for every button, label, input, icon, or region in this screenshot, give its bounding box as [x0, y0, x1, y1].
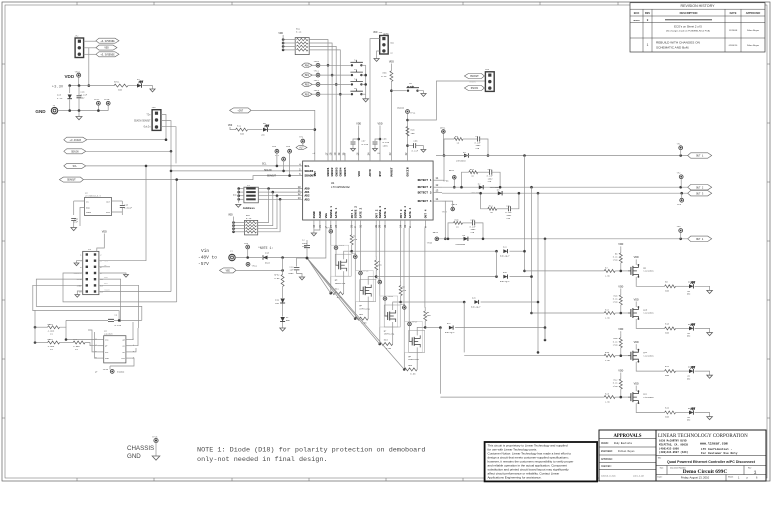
- wire S3 to common: [361, 74, 365, 76]
- wire gate 4: [408, 228, 410, 326]
- pin SENSE 4 bottom: [404, 220, 406, 228]
- transistor Q6 IRFM120A: [355, 271, 373, 302]
- ground: [78, 111, 80, 117]
- svg-text:TP10: TP10: [314, 60, 320, 63]
- wire det4 column: [442, 201, 445, 239]
- svg-text:GRN: GRN: [687, 336, 690, 338]
- wire AD2: [267, 195, 303, 197]
- wire channel 3 input: [464, 355, 604, 357]
- wire SDAOUT: [289, 153, 291, 176]
- linear technology title block: [656, 430, 766, 481]
- wire S6 to ground: [418, 91, 424, 94]
- wire TP10 row: [312, 64, 316, 66]
- wire SDAIN run: [86, 150, 171, 152]
- wire LED D12 to ground: [695, 286, 710, 290]
- wire to LED D14: [676, 370, 689, 372]
- net flag SDAOUT: [59, 177, 83, 182]
- net flag ALT: [296, 145, 307, 149]
- svg-text:VDD: VDD: [278, 32, 283, 35]
- transistor Q10 Si2343DS: [631, 308, 633, 318]
- test point TP22: [354, 255, 358, 259]
- svg-text:OUT 4: OUT 4: [425, 209, 428, 218]
- svg-text:3.9K: 3.9K: [274, 277, 280, 280]
- svg-text:Si2343DS: Si2343DS: [643, 312, 654, 315]
- svg-text:IRFM120A: IRFM120A: [408, 358, 419, 361]
- net flag SDAIN: [64, 149, 86, 154]
- svg-text:10K: 10K: [402, 289, 407, 292]
- svg-text:Dilian Reyes: Dilian Reyes: [747, 45, 760, 47]
- svg-text:TP06: TP06: [443, 180, 449, 183]
- svg-text:300: 300: [240, 133, 245, 136]
- net flag TIeHigh: [64, 137, 87, 142]
- pin GND03 top: [335, 153, 337, 161]
- svg-text:TP17: TP17: [94, 98, 100, 101]
- svg-text:VDD: VDD: [228, 213, 233, 216]
- svg-text:REBUILD WITH CHANGES ON: REBUILD WITH CHANGES ON: [656, 41, 700, 45]
- svg-text:PB1: PB1: [305, 74, 310, 77]
- svg-text:Friday, August 13, 2010: Friday, August 13, 2010: [681, 475, 710, 479]
- wire eeprom scl sda: [88, 330, 98, 352]
- wire flag to JP3: [87, 139, 166, 141]
- svg-text:www.linear.com: www.linear.com: [700, 442, 728, 446]
- svg-text:ESDGND: ESDGND: [117, 370, 125, 373]
- svg-text:(No changes made on PCB698B_Re: (No changes made on PCB698B_Rev2 PCB): [666, 31, 710, 33]
- svg-text:VDD: VDD: [618, 243, 623, 246]
- wire gate 1: [335, 228, 337, 250]
- wire U2 GND: [80, 208, 85, 227]
- svg-text:VDD: VDD: [228, 124, 233, 127]
- svg-text:1.0K: 1.0K: [605, 401, 611, 404]
- wire JP3 pin1 loop: [161, 115, 166, 140]
- wire J3 pin7 loop SDAOUT: [63, 273, 177, 302]
- svg-text:SDAOUT: SDAOUT: [267, 175, 277, 178]
- wire JP4 AUTO line: [370, 39, 380, 153]
- wire gate Q9: [615, 270, 628, 272]
- svg-text:GND01: GND01: [327, 167, 330, 176]
- svg-text:1/4W: 1/4W: [613, 301, 619, 304]
- pin OUT 1 bottom: [351, 220, 353, 228]
- wire AD3: [267, 198, 303, 200]
- wire LED D14 to ground: [695, 371, 710, 375]
- svg-text:TP26: TP26: [400, 303, 406, 306]
- svg-text:C66: C66: [414, 140, 419, 143]
- wire channel 2 input: [532, 312, 605, 314]
- svg-text:VDD: VDD: [104, 47, 109, 50]
- svg-text:0.1uF: 0.1uF: [412, 150, 419, 153]
- svg-text:RPN1: RPN1: [114, 81, 120, 84]
- wire source 4: [416, 347, 418, 369]
- wire to LED D15: [676, 412, 689, 414]
- approvals block: [599, 430, 656, 481]
- test point TP25: [383, 297, 387, 301]
- svg-text:VDD: VDD: [377, 122, 382, 125]
- svg-text:OUT 3: OUT 3: [696, 192, 704, 195]
- wire drain link: [496, 251, 498, 276]
- revision history table: [630, 3, 765, 52]
- svg-text:OUT 4: OUT 4: [696, 238, 704, 241]
- svg-text:TP20: TP20: [326, 227, 332, 230]
- pin INT top: [314, 153, 316, 161]
- svg-text:0.50: 0.50: [410, 372, 416, 375]
- svg-text:300: 300: [118, 89, 123, 92]
- pin VEE bottom: [325, 220, 327, 228]
- svg-text:VDD: VDD: [389, 60, 394, 63]
- ground: [150, 89, 155, 92]
- svg-text:TP18: TP18: [104, 98, 110, 101]
- test point TP23: [359, 271, 363, 275]
- svg-text:AD3: AD3: [77, 284, 80, 287]
- svg-text:PB2: PB2: [305, 84, 310, 87]
- wire Vin to D18: [235, 257, 262, 259]
- svg-text:1.0K: 1.0K: [605, 274, 611, 277]
- wire VDD pin column: [358, 128, 360, 153]
- svg-text:VEE: VEE: [226, 270, 231, 273]
- svg-text:300: 300: [665, 416, 670, 419]
- svg-text:B4B-1Q-P: B4B-1Q-P: [500, 280, 510, 283]
- test point TP27: [408, 322, 412, 326]
- wire eeprom left nets: [60, 327, 98, 339]
- diode D2 CMPD3003: [479, 185, 483, 189]
- svg-text:APPROVALS: APPROVALS: [613, 434, 641, 439]
- wire D24 out: [510, 250, 525, 252]
- svg-text:DGND: DGND: [313, 211, 316, 218]
- svg-text:ALT: ALT: [299, 147, 304, 150]
- svg-text:GRN: GRN: [687, 420, 690, 422]
- net flag +3.3VSENSE: [96, 52, 119, 57]
- svg-text:Quad Powered Ethernet Controll: Quad Powered Ethernet Controller w/PC Di…: [667, 460, 756, 464]
- svg-text:R13: R13: [470, 168, 475, 171]
- wire R30 to MARST: [390, 81, 392, 153]
- wire port1 vertical: [524, 156, 526, 271]
- svg-text:SCL: SCL: [73, 165, 78, 168]
- svg-text:02/04/10: 02/04/10: [729, 45, 738, 47]
- svg-text:5.1K: 5.1K: [296, 31, 302, 34]
- svg-text:TP7: TP7: [275, 154, 280, 157]
- wire J3 pin11 loop: [33, 285, 119, 320]
- svg-text:cont_n_BM: cont_n_BM: [633, 475, 645, 478]
- svg-text:Rev: Rev: [748, 467, 751, 469]
- pin AGND bottom: [319, 220, 321, 228]
- svg-text:DESCRIPTION: DESCRIPTION: [680, 11, 698, 15]
- svg-text:Dilian Reyes: Dilian Reyes: [618, 450, 635, 453]
- wire R15 C63 bypass rail: [448, 223, 454, 239]
- wire INT run: [251, 110, 315, 153]
- wire pin11 to out1: [442, 156, 444, 181]
- svg-text:LT1763CS8-3.3: LT1763CS8-3.3: [85, 194, 101, 197]
- svg-text:SDAOUT: SDAOUT: [74, 272, 81, 275]
- svg-text:SENSE 4: SENSE 4: [404, 206, 407, 218]
- svg-text:TP3: TP3: [677, 203, 682, 206]
- svg-text:Size: Size: [660, 468, 664, 470]
- svg-text:TP11: TP11: [314, 70, 320, 73]
- wire to JP5: [408, 81, 486, 120]
- svg-text:CMPD3003: CMPD3003: [456, 160, 466, 163]
- svg-text:SDAIN: SDAIN: [305, 170, 314, 173]
- svg-text:TP19: TP19: [252, 265, 258, 268]
- diode D26 B4B: [474, 300, 478, 304]
- svg-text:TP23: TP23: [363, 270, 369, 273]
- wire drain Q11: [636, 362, 664, 371]
- svg-text:OUT 1: OUT 1: [696, 155, 704, 158]
- svg-text:AD1: AD1: [104, 282, 107, 285]
- net flag +3.3VSPARE: [96, 38, 119, 43]
- ic U1 LTC4259ACGW: [303, 161, 434, 220]
- svg-text:5.1K: 5.1K: [246, 217, 252, 220]
- svg-text:R11: R11: [237, 125, 242, 128]
- wire JP2 to flags: [84, 40, 96, 42]
- wire sense 2: [354, 228, 356, 255]
- svg-text:U1: U1: [331, 182, 335, 185]
- ground J3 left: [77, 261, 83, 263]
- diode D27 B4B: [449, 326, 453, 330]
- net flag port3: [302, 82, 313, 86]
- net flag OSCIN2: [464, 86, 484, 91]
- svg-text:DETECT 1: DETECT 1: [418, 179, 432, 182]
- svg-text:(408)432-1900: (408)432-1900: [659, 446, 679, 450]
- wire LED D13 to ground: [695, 328, 710, 332]
- wire gate 3: [384, 228, 386, 300]
- svg-text:DATE: DATE: [730, 11, 737, 15]
- wire TP11 row: [312, 74, 316, 76]
- svg-text:AD1: AD1: [305, 191, 310, 194]
- svg-text:APPROVED: APPROVED: [746, 11, 761, 15]
- svg-text:VDD: VDD: [356, 122, 361, 125]
- svg-text:TP13: TP13: [314, 89, 320, 92]
- svg-text:Si2343DS: Si2343DS: [643, 354, 654, 357]
- svg-text:JP3: JP3: [152, 106, 157, 109]
- pin GATE 4 bottom: [409, 220, 411, 228]
- svg-text:*NOTE 1:: *NOTE 1:: [258, 246, 273, 250]
- svg-text:4ECO#: 4ECO#: [633, 19, 640, 22]
- svg-text:-48V to: -48V to: [198, 255, 217, 261]
- svg-text:VDD: VDD: [64, 74, 74, 79]
- wire out4 long: [437, 238, 688, 240]
- wire source 1: [343, 271, 345, 293]
- svg-text:B4B-1Q-P: B4B-1Q-P: [500, 255, 510, 258]
- svg-text:VDD: VDD: [618, 328, 623, 331]
- wire port3 link: [463, 302, 465, 352]
- pin GATE 2 bottom: [360, 220, 362, 228]
- wire D27 out: [455, 327, 545, 329]
- wire SDAOUT run: [83, 176, 302, 180]
- svg-text:AUTO: AUTO: [369, 169, 372, 176]
- svg-text:TP08: TP08: [427, 242, 433, 245]
- svg-text:20V: 20V: [275, 302, 280, 305]
- svg-text:VDD: VDD: [102, 230, 107, 233]
- test point TP26: [403, 306, 407, 310]
- wire drain Q12: [636, 403, 664, 412]
- svg-text:SDAIN: SDAIN: [104, 289, 109, 292]
- svg-text:TP25: TP25: [388, 295, 394, 298]
- svg-text:AD0: AD0: [305, 188, 310, 191]
- wire JP3 pin2: [161, 121, 171, 152]
- connector JP5: [485, 72, 494, 92]
- wire BYP column: [379, 128, 381, 153]
- wire C4 rail: [65, 320, 67, 327]
- svg-text:R26: R26: [665, 407, 670, 410]
- svg-text:+3.3VAUX: +3.3VAUX: [70, 139, 82, 142]
- wire SDAIN to ic: [171, 170, 303, 172]
- wire U2 BYP: [112, 212, 123, 215]
- svg-text:DETECT 4: DETECT 4: [418, 200, 432, 203]
- svg-text:GATE 1: GATE 1: [335, 208, 338, 219]
- svg-text:+INT: +INT: [237, 110, 243, 113]
- svg-text:R62: R62: [359, 313, 364, 316]
- transistor Q5 IRFM120A: [331, 245, 349, 276]
- svg-text:165: 165: [411, 132, 416, 135]
- svg-text:VDD: VDD: [634, 298, 639, 301]
- transistor Q11 Si2343DS: [631, 351, 633, 361]
- svg-text:SDAIN/SDAOUT: SDAIN/SDAOUT: [134, 119, 151, 122]
- wire S4 to common: [361, 83, 365, 85]
- wire TP05 stem: [442, 133, 444, 155]
- svg-text:GND05: GND05: [344, 167, 347, 176]
- connector JP2: [75, 38, 84, 58]
- svg-text:DETECT 3: DETECT 3: [418, 191, 432, 194]
- svg-text:VDD: VDD: [618, 285, 623, 288]
- pin GND01 top: [327, 153, 329, 161]
- wire port4 route: [439, 328, 441, 394]
- svg-text:GATE 3: GATE 3: [384, 208, 387, 219]
- wire sense 3: [379, 228, 381, 280]
- svg-text:R15: R15: [455, 219, 460, 222]
- pin GND02 top: [331, 153, 333, 161]
- svg-text:DET1: DET1: [440, 127, 446, 130]
- svg-text:Date:: Date:: [658, 476, 663, 479]
- wire source 3: [392, 322, 394, 344]
- svg-text:GND02: GND02: [331, 167, 334, 176]
- svg-text:Rudy Bautista: Rudy Bautista: [614, 442, 633, 445]
- pin DGND bottom: [313, 220, 315, 228]
- svg-text:11/25/08: 11/25/08: [729, 30, 738, 32]
- wire to LED D13: [676, 327, 689, 329]
- svg-text:VDD: VDD: [634, 341, 639, 344]
- svg-text:SDAIN: SDAIN: [264, 169, 272, 172]
- svg-text:TP29: TP29: [103, 368, 109, 371]
- net flag SCL: [64, 163, 86, 168]
- svg-text:TP8: TP8: [286, 145, 291, 148]
- wire VDD net down: [88, 48, 90, 86]
- svg-text:+3.3VSPARE: +3.3VSPARE: [100, 40, 115, 43]
- svg-text:R64: R64: [408, 364, 413, 367]
- disclaimer text box: [485, 442, 597, 481]
- svg-text:LTC4259ACGW: LTC4259ACGW: [331, 186, 350, 189]
- svg-text:SCL: SCL: [262, 163, 267, 166]
- wire GND rail: [58, 110, 108, 112]
- wire source 2: [367, 297, 369, 319]
- pin BYP top: [379, 153, 381, 161]
- svg-text:1/4W: 1/4W: [613, 385, 619, 388]
- svg-text:GATE 4: GATE 4: [409, 208, 412, 219]
- wire TP12 row: [312, 83, 316, 85]
- pin GND04 top: [339, 153, 341, 161]
- svg-text:VEE: VEE: [325, 213, 328, 218]
- svg-text:1/4W: 1/4W: [613, 259, 619, 262]
- wire button common to ground: [365, 65, 367, 99]
- svg-text:TP5: TP5: [244, 242, 249, 245]
- svg-text:GRN: GRN: [687, 294, 690, 296]
- svg-text:TP22: TP22: [351, 252, 357, 255]
- svg-text:CHECKED:: CHECKED:: [601, 465, 612, 468]
- wire AD0: [267, 188, 303, 190]
- wire out1 long: [436, 155, 688, 157]
- pin OUT 3 bottom: [400, 220, 402, 228]
- svg-text:Si2343DS: Si2343DS: [643, 396, 654, 399]
- net flag VDD: [96, 45, 117, 50]
- svg-text:MILPITAS, CA. 95035: MILPITAS, CA. 95035: [659, 444, 689, 447]
- svg-text:Dilian Reyes: Dilian Reyes: [747, 30, 760, 32]
- pin AUTO top: [369, 153, 371, 161]
- svg-text:B4B-1Q-P: B4B-1Q-P: [471, 305, 481, 308]
- svg-text:0.1uF: 0.1uF: [115, 324, 122, 327]
- svg-text:TIe: TIe: [146, 113, 151, 116]
- wire drain run 3: [401, 301, 465, 303]
- svg-text:100V: 100V: [383, 145, 389, 148]
- svg-text:Address: Address: [243, 206, 255, 210]
- wire J3 pin6 stub: [100, 266, 110, 268]
- wire SDAIN: [283, 161, 285, 171]
- svg-text:GRN: GRN: [687, 378, 690, 380]
- net flag OUT3: [688, 191, 712, 196]
- net flag port1: [302, 63, 313, 67]
- svg-text:OSCOUT: OSCOUT: [470, 75, 479, 78]
- transistor Q9 Si2343DS: [631, 266, 633, 276]
- svg-text:DETECT 2: DETECT 2: [418, 186, 432, 189]
- wire LED to ground: [143, 86, 153, 89]
- test point TP20: [329, 230, 333, 234]
- wire to LED D12: [676, 285, 689, 287]
- wire SCL: [276, 153, 278, 166]
- svg-text:SCL: SCL: [305, 165, 310, 168]
- svg-text:REV: REV: [645, 11, 651, 15]
- svg-text:GND04: GND04: [339, 167, 342, 176]
- wire gate Q12: [615, 396, 628, 398]
- wire port2 vertical: [531, 187, 533, 313]
- svg-text:+3.3VSENSE: +3.3VSENSE: [100, 53, 115, 56]
- svg-text:CMPD3003: CMPD3003: [490, 186, 500, 189]
- net flag OUT4: [688, 236, 712, 241]
- wire SCL run: [86, 165, 303, 167]
- wire R11 to LED D6: [248, 129, 263, 131]
- wire J3 pin9 loop: [36, 279, 142, 320]
- wire R13 C61 bypass rail: [462, 172, 469, 187]
- net flag OUT1: [688, 153, 712, 158]
- svg-text:IRFM120A: IRFM120A: [384, 333, 395, 336]
- wire drain Q10: [636, 319, 664, 328]
- svg-text:CHASSIS: CHASSIS: [127, 445, 154, 452]
- svg-text:REVISION HISTORY: REVISION HISTORY: [680, 4, 715, 8]
- wire RPM2 to D19: [282, 286, 284, 298]
- test point TP3: [680, 198, 684, 202]
- svg-text:LINEAR TECHNOLOGY CORPORATION: LINEAR TECHNOLOGY CORPORATION: [658, 434, 748, 439]
- svg-text:0.01uF: 0.01uF: [124, 207, 133, 210]
- pin OUT 4 bottom: [425, 220, 427, 228]
- wire JP3 pin3: [161, 127, 176, 164]
- wire drain 3: [393, 296, 401, 310]
- svg-text:VDD: VDD: [618, 369, 623, 372]
- pin GATE 3 bottom: [384, 220, 386, 228]
- wire drain run 1: [352, 250, 497, 252]
- svg-text:IRFM120A: IRFM120A: [359, 307, 370, 310]
- transistor Q8 IRFM120A: [404, 321, 422, 352]
- svg-text:DET4: DET4: [433, 231, 439, 234]
- svg-text:TP16: TP16: [75, 70, 81, 73]
- svg-text:JP2: JP2: [75, 35, 80, 38]
- wire S1 common to ground: [238, 189, 240, 203]
- svg-text:300: 300: [665, 289, 670, 292]
- wire JP4 to ground: [377, 51, 380, 59]
- wire S5 to common: [361, 93, 365, 95]
